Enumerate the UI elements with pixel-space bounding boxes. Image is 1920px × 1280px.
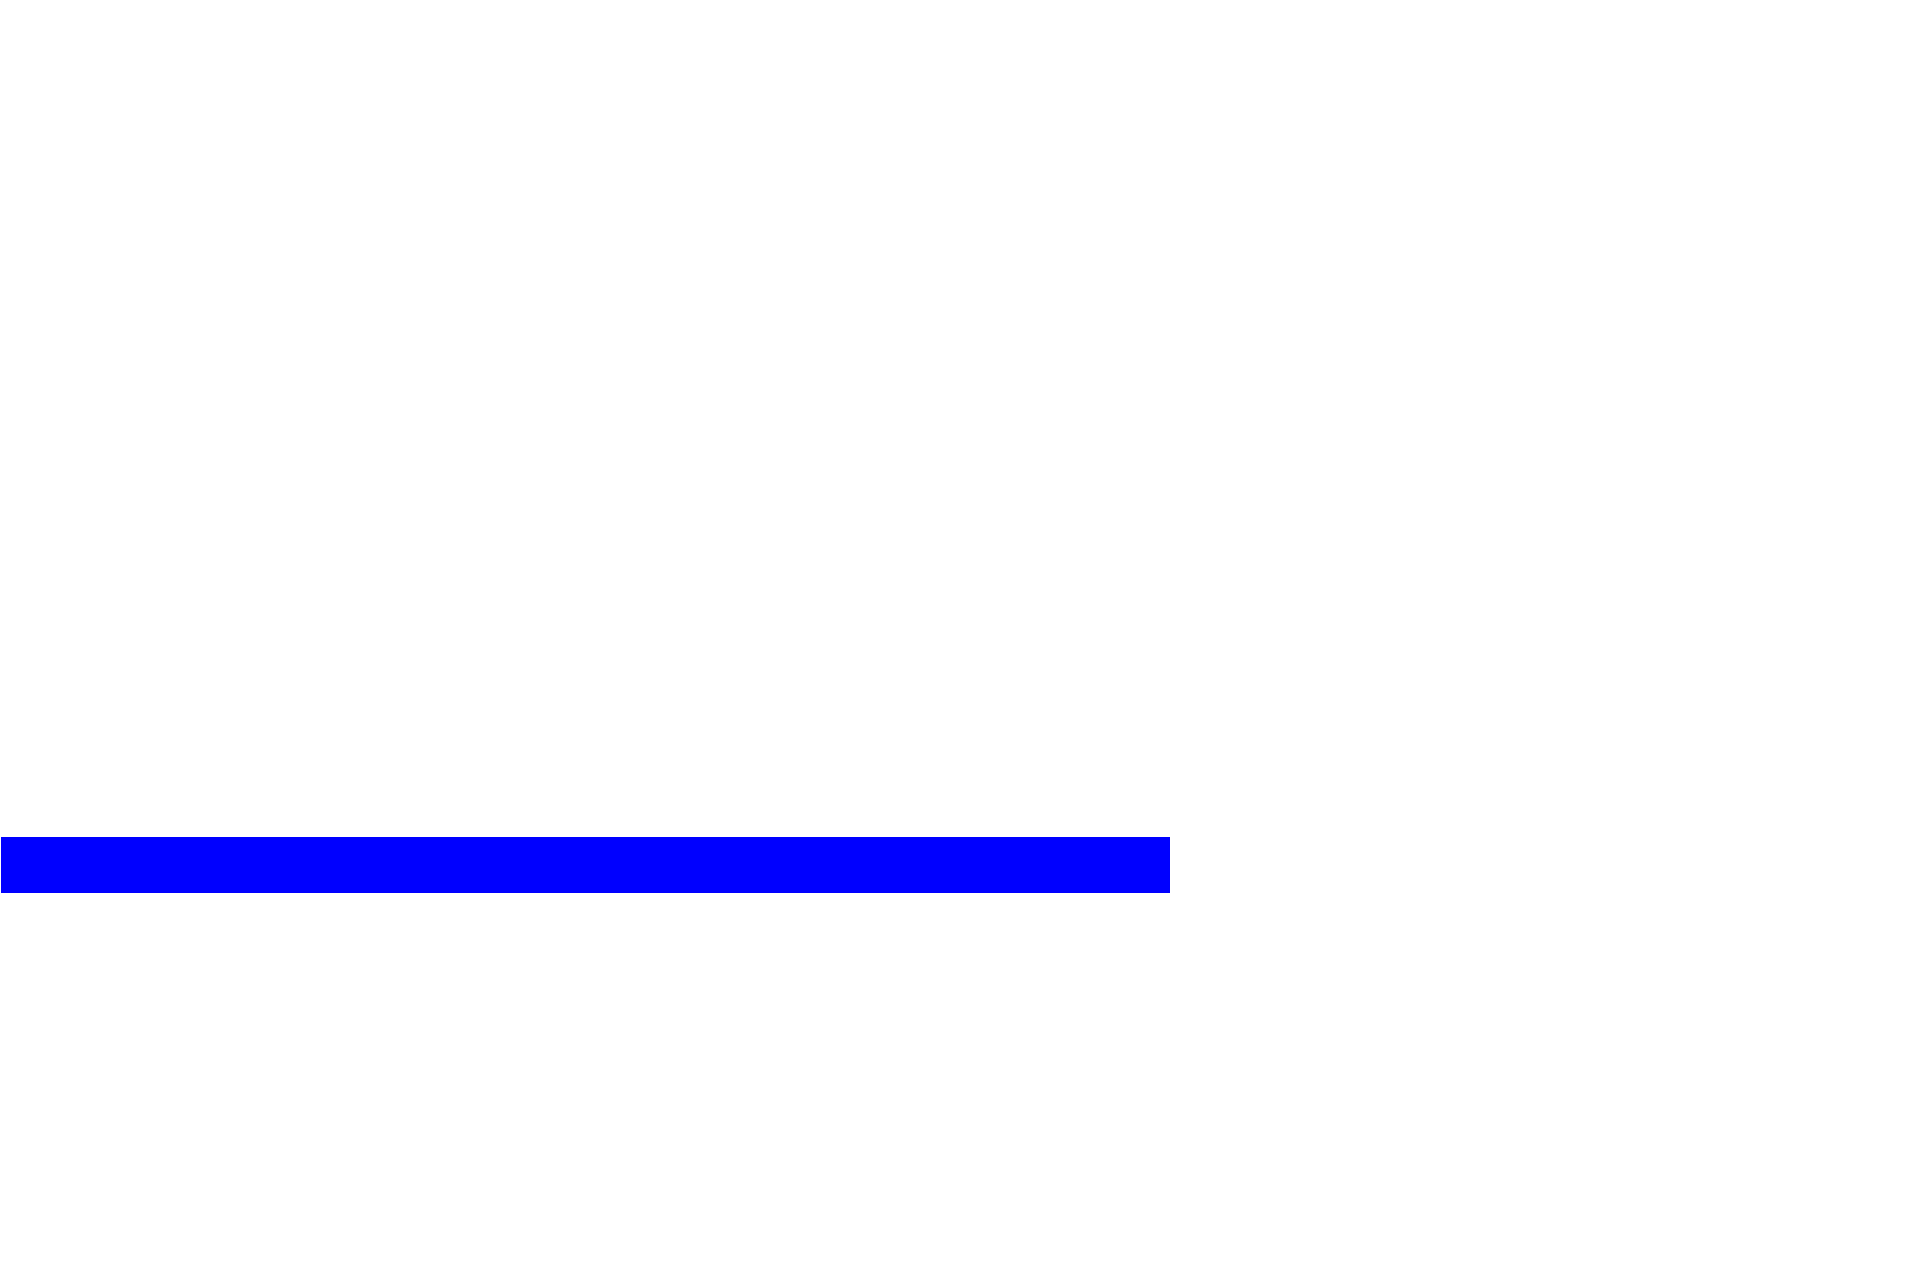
blue bar (1, 837, 1170, 893)
